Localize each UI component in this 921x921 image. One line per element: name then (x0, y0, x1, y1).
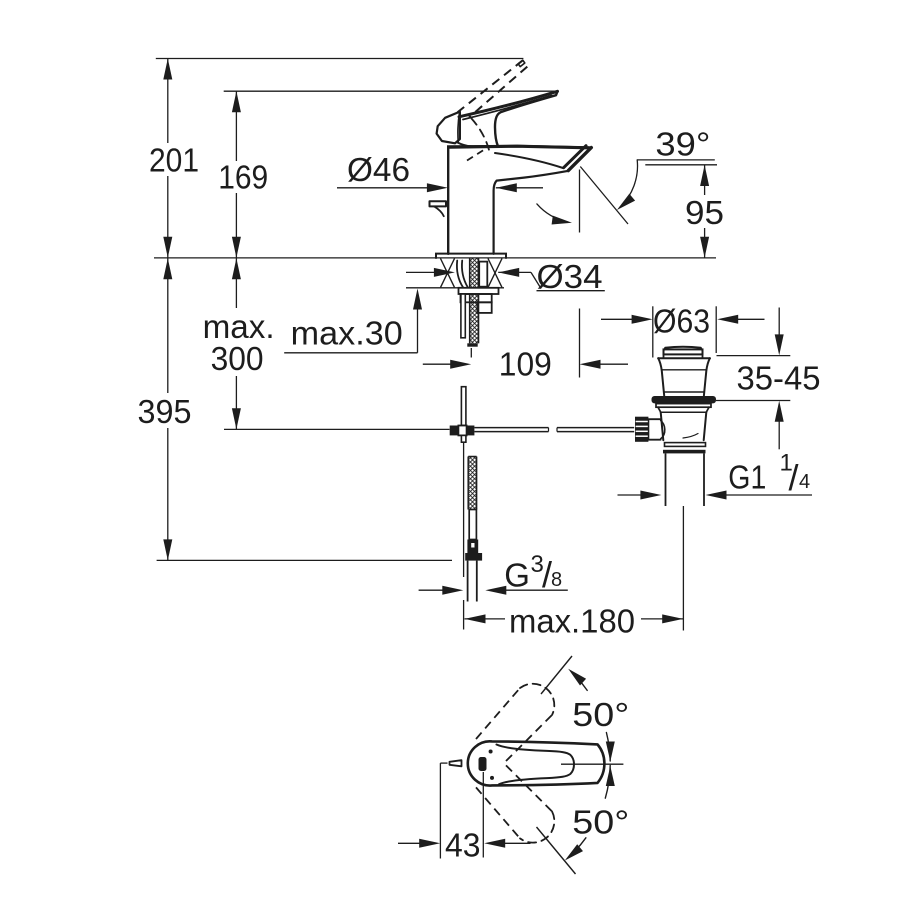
drain dark band (663, 450, 706, 454)
deck bottom line (406, 287, 504, 289)
svg-text:4: 4 (799, 471, 810, 493)
lever blade top edge (459, 91, 558, 117)
dim max.300 line (235, 258, 237, 308)
deck top line (154, 257, 716, 259)
svg-text:G1: G1 (728, 459, 766, 496)
handle dots (489, 750, 493, 754)
max.180 right extension / drain centerline (682, 506, 684, 631)
svg-text:35-45: 35-45 (737, 360, 821, 397)
handle pin (450, 760, 462, 766)
faucet spout top edge thick (450, 146, 589, 148)
supply tube right (479, 262, 487, 287)
pop-up tee center (458, 426, 466, 436)
ref line top of handle (201) (156, 58, 524, 60)
handle dashed position lower (476, 787, 520, 838)
bottom view centerline (561, 763, 623, 765)
dim G3/8 line (419, 589, 443, 591)
handle inner outline (497, 745, 575, 785)
39° angle arc 1 (620, 160, 638, 207)
braided hose crosshatch (468, 457, 476, 510)
dim 35-45 bottom ref line (716, 400, 790, 402)
lever knob (437, 112, 460, 144)
svg-text:39°: 39° (655, 126, 710, 163)
dim Ø63 arrows (601, 318, 632, 320)
39° angle arc 2 (537, 204, 568, 222)
dim 39° underline (637, 159, 715, 161)
spout outlet ref line (95 top) (645, 164, 717, 166)
svg-text:95: 95 (685, 194, 724, 231)
dim max.180 line (465, 618, 506, 620)
dim 109 line (423, 363, 451, 365)
long mounting stud (461, 294, 465, 338)
dim 43 extension left (440, 762, 447, 764)
spout slab inner line (495, 153, 563, 168)
pop-up pull rod knob (430, 201, 447, 206)
lower 50 deg arc (605, 766, 610, 799)
mounting nut step1 (461, 294, 492, 302)
svg-text:50°: 50° (572, 696, 629, 733)
lever dashed tip cap (518, 60, 525, 66)
water stream diagonal (580, 167, 628, 225)
spout outlet face outer (568, 148, 591, 171)
spout outlet face inner (564, 146, 586, 168)
svg-text:G: G (504, 557, 530, 594)
hose thread pipe (467, 561, 469, 602)
svg-text:50°: 50° (572, 804, 629, 841)
upper 50 deg arc (576, 677, 587, 691)
dim G1 1/4 line (618, 494, 642, 496)
svg-text:8: 8 (551, 569, 562, 591)
pop-up tee right block (467, 426, 475, 436)
drain collar (656, 404, 711, 408)
lower 50 deg diagonal (537, 827, 576, 874)
threaded shank crosshatch (470, 258, 479, 343)
svg-text:395: 395 (138, 393, 192, 430)
svg-text:Ø63: Ø63 (653, 302, 710, 339)
dim 95 line (704, 165, 706, 195)
109 left extension tick (470, 348, 472, 358)
lever dashed raised outline A (458, 60, 523, 112)
svg-text:Ø46: Ø46 (347, 151, 410, 188)
outlet vertical extension (579, 170, 581, 233)
pop-up rod below deck (461, 387, 466, 426)
pop-up tee stub below (461, 435, 466, 442)
lever blade inner line (463, 96, 552, 120)
deck hatch left (441, 259, 455, 288)
supply tube curves (457, 261, 463, 288)
dim 169 line (235, 91, 237, 161)
drain flare seams (662, 369, 707, 371)
hose nut dark (467, 540, 478, 554)
max.300 bottom ref line to pop-up tee (224, 428, 450, 430)
drain pop-up knob (665, 347, 702, 350)
drain flare (658, 357, 710, 359)
dim 395 line (167, 258, 169, 393)
shank end cap (467, 343, 477, 346)
pop-up tee left block (450, 426, 459, 436)
dim Ø46 leader and arrows (337, 187, 434, 189)
svg-text:max.180: max.180 (509, 602, 635, 639)
horizontal linkage rod (474, 427, 548, 429)
drain ball joint arc (661, 421, 665, 439)
max.180 left extension line (463, 442, 465, 577)
dim 43 extension right (482, 772, 484, 858)
lever dashed travel arc (472, 119, 490, 153)
dim Ø34 leader (531, 272, 541, 288)
lever dashed raised outline B (469, 67, 527, 118)
svg-text:/: / (789, 457, 799, 498)
handle top view outline (468, 741, 605, 785)
dim Ø34 arrows (406, 271, 434, 273)
dim 35-45 lines (778, 308, 780, 336)
drain seal flange black (652, 396, 717, 403)
mounting nut step2 (477, 302, 491, 313)
svg-text:300: 300 (211, 340, 264, 377)
cartridge dashed line inside body (467, 148, 488, 161)
ref line bottom (395) hose end (157, 559, 452, 561)
lever blade bottom and neck (495, 91, 558, 146)
handle slot (479, 757, 487, 771)
drain knurled nut (635, 417, 648, 442)
dim Ø63 extension lines (652, 306, 654, 357)
upper 50 deg diagonal (541, 656, 572, 694)
dim 201 line (167, 59, 169, 144)
hose end band dark (465, 553, 482, 561)
faucet body outline (448, 146, 591, 254)
ref line top of lever rest (169) (224, 90, 559, 92)
handle dashed position upper (476, 688, 520, 739)
svg-text:max.30: max.30 (291, 314, 403, 351)
svg-text:Ø34: Ø34 (537, 258, 603, 295)
mounting washer (459, 288, 499, 294)
svg-text:109: 109 (499, 346, 552, 383)
lever neck left edge (458, 143, 472, 147)
dim 43 line (398, 842, 421, 844)
dim 35-45 top ref line (717, 355, 791, 357)
drain tailpipe (665, 453, 667, 506)
svg-text:201: 201 (149, 141, 199, 178)
drain valve body (661, 412, 707, 440)
drain side port (648, 419, 660, 440)
hose ferrule (469, 510, 476, 540)
svg-text:43: 43 (445, 827, 481, 864)
drain joint ring (665, 443, 706, 447)
deck hatch right (488, 259, 502, 288)
svg-text:169: 169 (218, 159, 268, 196)
faucet base plate (436, 254, 506, 258)
